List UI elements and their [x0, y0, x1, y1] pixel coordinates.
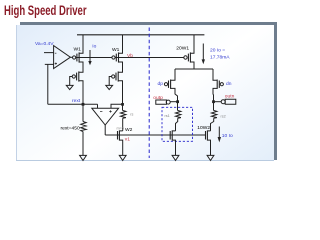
wire U1 feedback loop	[47, 64, 49, 104]
svg-text:20 Io =: 20 Io =	[210, 48, 225, 54]
dashed replica box	[162, 107, 193, 141]
port outn	[214, 101, 222, 103]
wire outp to rs1	[177, 102, 179, 111]
wire U2 minus input	[97, 104, 99, 108]
wire rs2 to 10W2	[211, 118, 214, 131]
svg-text:rext: rext	[72, 98, 81, 104]
wire outn to rs2	[213, 102, 215, 111]
transistor M3 W1 PMOS	[112, 56, 115, 59]
wire U1 output to M1 gate	[70, 56, 72, 58]
VDD top rail	[77, 34, 204, 36]
transistor M4 cascode PMOS	[112, 75, 115, 78]
svg-text:Vb: Vb	[127, 53, 133, 59]
wire diff pair common source	[175, 68, 213, 70]
node U2 plus junction	[121, 103, 124, 106]
svg-text:W2: W2	[125, 127, 133, 133]
ground symbol (gate M2)	[66, 85, 73, 89]
svg-text:rs1: rs1	[165, 114, 170, 118]
svg-text:m=5: m=5	[117, 127, 125, 131]
wire rs1 to M5	[176, 118, 178, 131]
ground arrow (M5)	[172, 155, 179, 160]
resistor rs1	[176, 110, 181, 118]
wire M4 gate to gnd	[109, 77, 111, 86]
wire rext node to resistor	[82, 104, 84, 121]
svg-text:10 Io: 10 Io	[222, 133, 233, 139]
svg-text:W1: W1	[74, 46, 82, 52]
op-amp U1	[54, 46, 71, 69]
current arrow 10Io	[218, 127, 220, 138]
svg-text:10W2: 10W2	[197, 125, 210, 131]
transistor M1 W1 PMOS	[73, 56, 76, 59]
svg-text:Io: Io	[92, 44, 96, 50]
resistor rs	[121, 110, 126, 118]
svg-text:rs2: rs2	[221, 115, 226, 119]
transistor 10W2 NMOS	[205, 131, 207, 140]
resistor rext	[81, 122, 86, 132]
svg-text:Va=0.4V: Va=0.4V	[35, 41, 54, 47]
transistor M2 cascode PMOS	[72, 75, 75, 78]
ground arrow (10W2)	[207, 155, 214, 160]
transistor 20W1 PMOS	[184, 56, 187, 59]
svg-text:rext=450: rext=450	[61, 125, 80, 131]
port outp	[156, 100, 167, 104]
svg-text:dp: dp	[158, 81, 164, 87]
transistor M5 NMOS replica	[169, 131, 171, 140]
current arrow 20Io	[202, 44, 204, 60]
svg-text:rs: rs	[130, 112, 133, 116]
node outp junction	[176, 100, 179, 103]
svg-text:20W1: 20W1	[176, 46, 189, 52]
svg-text:W1: W1	[112, 47, 120, 53]
transistor W2 NMOS	[117, 131, 119, 140]
svg-text:17.78mA: 17.78mA	[210, 54, 230, 60]
wire rext node line (feedback to U2 minus)	[48, 103, 98, 105]
svg-text:v1: v1	[125, 136, 130, 142]
transistor dp PMOS	[164, 83, 167, 86]
node outn junction	[212, 100, 215, 103]
wire M2 gate to gnd	[70, 77, 73, 86]
wire rs to W2 drain	[122, 118, 124, 131]
ground arrow (rext)	[80, 155, 87, 160]
node rext junction	[82, 103, 85, 106]
wire resistor to ground	[82, 132, 84, 156]
wire U2 plus input to branch B	[111, 104, 123, 108]
wire U2 output	[104, 125, 106, 135]
current arrow Io	[89, 50, 91, 61]
dashed net boundary line	[148, 28, 150, 159]
gate net line v1	[105, 134, 205, 136]
resistor rs2	[212, 110, 217, 118]
wire Vb bias line	[76, 57, 184, 59]
op-amp U2	[92, 108, 119, 125]
transistor dn PMOS	[220, 83, 223, 86]
ground symbol (gate M4)	[106, 85, 113, 89]
svg-text:outn: outn	[225, 93, 235, 99]
svg-text:dn: dn	[226, 81, 232, 87]
ground arrow (W2)	[119, 155, 126, 160]
